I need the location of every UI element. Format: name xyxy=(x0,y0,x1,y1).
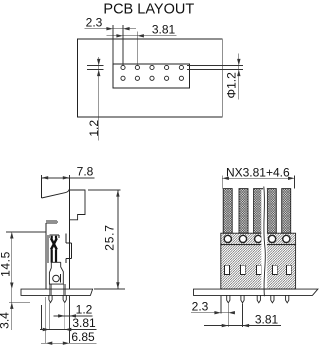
svg-text:1.2: 1.2 xyxy=(76,303,93,317)
svg-text:3.81: 3.81 xyxy=(152,22,176,36)
svg-text:2.3: 2.3 xyxy=(192,299,209,313)
svg-text:Φ1.2: Φ1.2 xyxy=(225,72,239,99)
svg-text:3.81: 3.81 xyxy=(72,316,96,330)
svg-text:3.4: 3.4 xyxy=(0,312,12,329)
svg-text:3.81: 3.81 xyxy=(255,312,279,326)
svg-text:PCB LAYOUT: PCB LAYOUT xyxy=(103,1,194,17)
svg-text:6.85: 6.85 xyxy=(71,330,95,344)
svg-text:7.8: 7.8 xyxy=(77,165,94,179)
svg-text:NX3.81+4.6: NX3.81+4.6 xyxy=(226,165,290,179)
svg-text:1.2: 1.2 xyxy=(87,120,101,137)
svg-text:14.5: 14.5 xyxy=(0,251,13,277)
svg-text:2.3: 2.3 xyxy=(86,15,103,29)
svg-text:25.7: 25.7 xyxy=(103,224,117,251)
